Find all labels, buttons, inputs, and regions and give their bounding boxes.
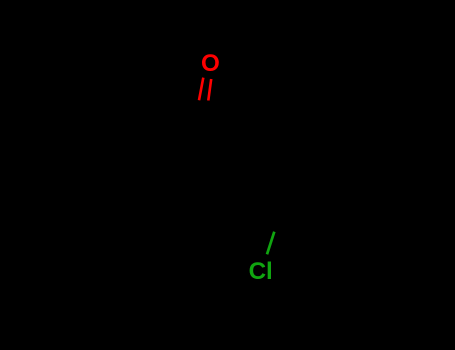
bond C-Cl xyxy=(267,232,274,255)
double bond C=O line 2 (right) xyxy=(208,79,211,101)
double bond C=O line 1 (left) xyxy=(199,78,203,101)
svg-text:O: O xyxy=(201,50,220,77)
svg-text:Cl: Cl xyxy=(249,258,273,285)
